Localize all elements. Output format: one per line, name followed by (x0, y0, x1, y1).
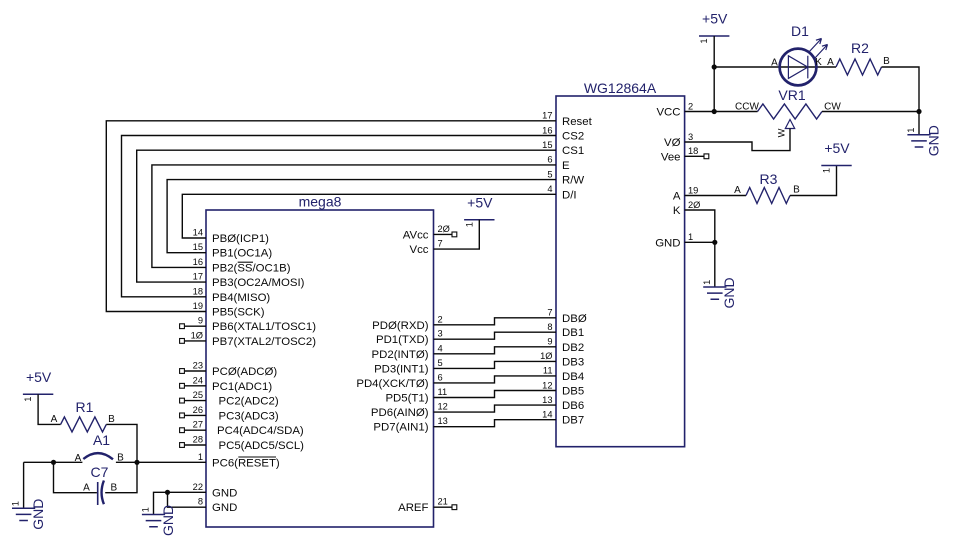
svg-text:PB4(MISO): PB4(MISO) (212, 292, 270, 304)
svg-text:PC2(ADC2): PC2(ADC2) (219, 396, 279, 408)
mega8 pin 18 PB4(MISO) (193, 286, 271, 304)
wire PD7-DB7 (434, 420, 557, 427)
svg-text:GND: GND (212, 502, 237, 514)
svg-text:1: 1 (11, 501, 21, 506)
wire PB5-Reset (106, 121, 556, 312)
resistor R1 (61, 417, 107, 432)
WG12864A pin 9 DB2 (547, 337, 584, 354)
mega8 pin 5 PD3(INT1) (374, 358, 443, 376)
svg-text:PD1(TXD): PD1(TXD) (376, 334, 429, 346)
svg-text:A: A (51, 414, 58, 425)
svg-text:15: 15 (542, 140, 552, 150)
ground G3 (141, 505, 176, 536)
svg-text:CS1: CS1 (562, 145, 584, 157)
wire R1 to node (106, 424, 137, 462)
ground G1 (906, 125, 941, 156)
svg-text:22: 22 (193, 482, 203, 492)
potentiometer VR1 (758, 104, 823, 129)
svg-text:PD5(T1): PD5(T1) (385, 393, 428, 405)
svg-text:2: 2 (438, 314, 443, 324)
svg-text:A: A (827, 57, 834, 68)
svg-text:PB1(OC1A): PB1(OC1A) (212, 248, 272, 260)
WG12864A pin 6 E (547, 155, 570, 172)
svg-text:E: E (562, 160, 570, 172)
wire VR1 to CW corner (822, 111, 919, 113)
wire Vcc to +5V (434, 220, 480, 249)
svg-text:13: 13 (438, 416, 448, 426)
svg-text:DB7: DB7 (562, 415, 584, 427)
svg-text:DB4: DB4 (562, 371, 584, 383)
power +5V VDD1 (699, 11, 729, 44)
svg-text:3: 3 (438, 329, 443, 339)
svg-text:PB6(XTAL1/TOSC1): PB6(XTAL1/TOSC1) (212, 321, 316, 333)
WG12864A pin 1 GND (655, 232, 693, 249)
wire PD6-DB6 (434, 405, 557, 412)
wire A pin to R3 (685, 195, 746, 197)
mega8 pin 12 PD6(AIN0) (371, 402, 448, 420)
svg-text:PB3(OC2A/MOSI): PB3(OC2A/MOSI) (212, 277, 305, 289)
mega8 pin 14 PB0(ICP1) (193, 228, 270, 246)
WG12864A pin 2 VCC (656, 101, 693, 118)
mega8 pin 19 PB5(SCK) (193, 301, 265, 319)
wire GND drop left (23, 462, 25, 508)
svg-text:+5V: +5V (702, 11, 728, 27)
svg-text:5: 5 (438, 358, 443, 368)
mega8 pin 2 PD0(RXD) (372, 314, 443, 332)
svg-text:PC3(ADC3): PC3(ADC3) (219, 410, 279, 422)
svg-text:15: 15 (193, 242, 203, 252)
svg-text:3: 3 (688, 132, 693, 142)
WG12864A pin 11 DB4 (543, 366, 584, 383)
svg-text:AREF: AREF (398, 502, 428, 514)
svg-text:K: K (673, 205, 681, 217)
svg-text:DB5: DB5 (562, 386, 584, 398)
svg-text:7: 7 (547, 308, 552, 318)
mega8 pin 1 PC6(RESET) (198, 452, 280, 470)
junction K-GND junction (712, 240, 717, 245)
svg-text:16: 16 (542, 125, 552, 135)
svg-text:AVcc: AVcc (403, 229, 429, 241)
mega8 pin 15 PB1(OC1A) (193, 242, 273, 260)
svg-text:24: 24 (193, 375, 203, 385)
mega8 pin 20 AVcc (403, 224, 457, 242)
WG12864A pin 18 Vee (661, 146, 698, 163)
svg-text:9: 9 (198, 316, 203, 326)
mega8 pin 25 PC2(ADC2) (180, 390, 279, 408)
svg-text:4: 4 (547, 184, 552, 194)
svg-text:PC4(ADC4/SDA): PC4(ADC4/SDA) (217, 425, 304, 437)
svg-text:2Ø: 2Ø (438, 224, 450, 234)
svg-text:Vcc: Vcc (410, 244, 429, 256)
mega8 pin 27 PC4(ADC4/SDA) (180, 420, 304, 438)
ground G4 (11, 499, 46, 530)
wire PB3-CS1 (137, 150, 556, 282)
LED D1 (780, 39, 828, 86)
mega8 pin 8 GND (198, 497, 237, 515)
svg-text:B: B (793, 185, 800, 196)
wire R2 to GND corner (882, 67, 920, 112)
WG12864A pin 5 R/W (547, 169, 584, 186)
mega8 pin 23 PC0(ADC0) (180, 361, 278, 379)
svg-text:GND: GND (655, 237, 680, 249)
wire PD2-DB2 (434, 347, 557, 354)
wire +5V rail drop (713, 36, 715, 112)
svg-text:VCC: VCC (656, 107, 680, 119)
svg-text:14: 14 (193, 228, 203, 238)
svg-text:C7: C7 (91, 464, 109, 480)
IC U1 mega8 box (206, 210, 434, 527)
svg-text:+5V: +5V (467, 194, 493, 210)
svg-text:R/W: R/W (562, 175, 584, 187)
svg-text:R3: R3 (760, 171, 778, 187)
wire GND drop right (918, 112, 920, 135)
svg-text:7: 7 (438, 239, 443, 249)
wire PB0-D/I (182, 194, 556, 238)
svg-text:5: 5 (547, 169, 552, 179)
svg-text:GND: GND (160, 505, 176, 536)
svg-text:D1: D1 (791, 23, 809, 39)
svg-text:PD4(XCK/TØ): PD4(XCK/TØ) (356, 378, 428, 390)
svg-text:DB6: DB6 (562, 400, 584, 412)
junction CW junction (916, 109, 921, 114)
wire node to switch (24, 461, 83, 463)
mega8 pin 16 PB2(SS/OC1B) (193, 257, 291, 275)
svg-text:PD2(INTØ): PD2(INTØ) (372, 349, 429, 361)
svg-text:B: B (108, 414, 115, 425)
svg-text:A: A (771, 58, 778, 69)
svg-text:GND: GND (721, 277, 737, 308)
WG12864A pin 12 DB5 (542, 380, 584, 397)
svg-text:VR1: VR1 (778, 87, 805, 103)
svg-text:28: 28 (193, 435, 203, 445)
svg-text:PC5(ADC5/SCL): PC5(ADC5/SCL) (219, 440, 305, 452)
wire GND8 wire (168, 492, 207, 507)
svg-text:2: 2 (688, 101, 693, 111)
mega8 pin 13 PD7(AIN1) (373, 416, 447, 434)
svg-text:17: 17 (542, 111, 552, 121)
junction GND junction (165, 490, 170, 495)
svg-text:1Ø: 1Ø (540, 351, 552, 361)
mega8 pin 4 PD2(INT0) (372, 343, 443, 361)
wire VCC to VR1 (685, 111, 758, 113)
IC U2 WG12864A box (556, 96, 685, 447)
svg-text:K: K (815, 57, 822, 68)
svg-text:27: 27 (193, 420, 203, 430)
mega8 pin 17 PB3(OC2A/MOSI) (193, 272, 305, 290)
wire PD1-DB1 (434, 332, 557, 339)
wire K to GND (685, 210, 715, 242)
mega8 pin 11 PD5(T1) (385, 387, 447, 405)
junction LED tap (712, 64, 717, 69)
svg-text:PB2(SS/OC1B): PB2(SS/OC1B) (212, 262, 291, 274)
svg-text:A1: A1 (93, 432, 110, 448)
mega8 pin 6 PD4(XCK/T0) (356, 372, 442, 390)
WG12864A pin 15 CS1 (542, 140, 584, 157)
svg-text:PCØ(ADCØ): PCØ(ADCØ) (212, 366, 277, 378)
resistor R2 (836, 59, 882, 75)
svg-text:Vee: Vee (661, 151, 681, 163)
svg-text:+5V: +5V (26, 369, 52, 385)
wire C7 right leg (105, 462, 137, 492)
power +5V VDD2 (464, 194, 494, 227)
svg-text:PDØ(RXD): PDØ(RXD) (372, 320, 429, 332)
WG12864A pin 19 A (673, 185, 698, 202)
mega8 pin 24 PC1(ADC1) (180, 375, 273, 393)
svg-text:11: 11 (438, 387, 448, 397)
svg-text:PD6(AINØ): PD6(AINØ) (371, 407, 429, 419)
power +5V VDD4 (23, 369, 53, 402)
svg-text:16: 16 (193, 257, 203, 267)
wire PD4-DB4 (434, 376, 557, 383)
svg-text:PB7(XTAL2/TOSC2): PB7(XTAL2/TOSC2) (212, 336, 316, 348)
wire switch to PC6 (116, 461, 206, 463)
mega8 pin 22 GND (193, 482, 238, 500)
svg-text:12: 12 (542, 380, 552, 390)
WG12864A pin 4 D/I (547, 184, 576, 201)
WG12864A pin 10 DB3 (540, 351, 584, 368)
WG12864A pin 3 V0 (664, 132, 693, 149)
svg-text:4: 4 (438, 343, 443, 353)
junction VCC tap (712, 109, 717, 114)
junction node right (134, 460, 139, 465)
wire PD3-DB3 (434, 361, 557, 368)
svg-text:W: W (777, 128, 787, 137)
svg-text:+5V: +5V (824, 140, 850, 156)
svg-text:R2: R2 (851, 40, 869, 56)
mega8 pin 26 PC3(ADC3) (180, 405, 279, 423)
svg-text:1: 1 (23, 397, 33, 402)
svg-text:DB2: DB2 (562, 342, 584, 354)
svg-text:17: 17 (193, 272, 203, 282)
svg-text:1: 1 (906, 128, 916, 133)
svg-text:D/I: D/I (562, 189, 577, 201)
svg-text:18: 18 (193, 286, 203, 296)
wire PB2-E (152, 165, 556, 268)
svg-text:14: 14 (542, 410, 552, 420)
svg-text:13: 13 (542, 395, 552, 405)
wire +5V to R1 (38, 394, 61, 424)
wire PD0-DB0 (434, 318, 557, 325)
svg-text:DB1: DB1 (562, 327, 584, 339)
svg-text:B: B (883, 56, 890, 67)
ground G2 (702, 277, 737, 308)
WG12864A pin 13 DB6 (542, 395, 584, 412)
svg-text:CS2: CS2 (562, 131, 584, 143)
svg-text:25: 25 (193, 390, 203, 400)
svg-text:18: 18 (688, 146, 698, 156)
svg-text:GND: GND (925, 125, 941, 156)
wire GND pin1 wire (685, 241, 715, 243)
svg-text:11: 11 (543, 366, 553, 376)
svg-text:A: A (734, 185, 741, 196)
mega8 pin 21 AREF (398, 497, 457, 515)
svg-text:21: 21 (438, 497, 448, 507)
svg-text:PBØ(ICP1): PBØ(ICP1) (212, 233, 269, 245)
svg-text:23: 23 (193, 361, 203, 371)
WG12864A pin 8 DB1 (547, 322, 584, 339)
svg-text:19: 19 (193, 301, 203, 311)
svg-text:PC6(RESET): PC6(RESET) (212, 458, 280, 470)
mega8 pin 3 PD1(TXD) (376, 329, 443, 347)
svg-text:9: 9 (547, 337, 552, 347)
mega8 pin 10 PB7(XTAL2/TOSC2) (180, 330, 317, 348)
switch A1 (83, 453, 113, 459)
svg-text:PD3(INT1): PD3(INT1) (374, 363, 429, 375)
wire GND drop LCD (714, 242, 716, 287)
svg-text:1: 1 (702, 280, 712, 285)
WG12864A pin 16 CS2 (542, 125, 584, 142)
svg-text:DB3: DB3 (562, 356, 584, 368)
wire PB1-R/W (167, 180, 556, 253)
wire LED anode (714, 66, 836, 68)
svg-text:6: 6 (547, 155, 552, 165)
svg-text:GND: GND (30, 499, 46, 530)
svg-text:R1: R1 (76, 399, 94, 415)
svg-text:PC1(ADC1): PC1(ADC1) (212, 381, 272, 393)
svg-text:1: 1 (198, 452, 203, 462)
capacitor C7 (98, 481, 104, 506)
resistor R3 (746, 188, 790, 204)
svg-text:26: 26 (193, 405, 203, 415)
junction node left (51, 460, 56, 465)
svg-text:1: 1 (822, 168, 832, 173)
svg-text:Reset: Reset (562, 116, 593, 128)
wire PD5-DB5 (434, 391, 557, 398)
svg-text:PB5(SCK): PB5(SCK) (212, 307, 265, 319)
wire GND22 wire (154, 492, 207, 514)
WG12864A pin 14 DB7 (542, 410, 584, 427)
overline SS of PB2 (238, 261, 253, 263)
WG12864A pin 7 DB0 (547, 308, 586, 325)
svg-text:GND: GND (212, 487, 237, 499)
power +5V VDD3 (821, 140, 851, 173)
svg-text:DBØ: DBØ (562, 313, 587, 325)
WG12864A pin 18 Vee stub (685, 154, 709, 159)
wire PB4-CS2 (122, 136, 557, 297)
svg-text:1: 1 (699, 38, 709, 43)
WG12864A pin 17 Reset (542, 111, 592, 128)
svg-text:1Ø: 1Ø (191, 330, 203, 340)
svg-text:1: 1 (141, 507, 151, 512)
wire R3 to +5V (790, 166, 837, 196)
svg-text:B: B (110, 483, 117, 494)
svg-text:A: A (83, 483, 90, 494)
mega8 pin 28 PC5(ADC5/SCL) (180, 435, 305, 453)
svg-text:8: 8 (547, 322, 552, 332)
svg-text:mega8: mega8 (299, 194, 342, 210)
svg-text:6: 6 (438, 372, 443, 382)
WG12864A pin 20 K (673, 200, 701, 217)
svg-text:8: 8 (198, 497, 203, 507)
svg-text:PD7(AIN1): PD7(AIN1) (373, 422, 428, 434)
mega8 pin 9 PB6(XTAL1/TOSC1) (180, 316, 317, 334)
svg-text:WG12864A: WG12864A (584, 80, 657, 96)
svg-text:19: 19 (688, 185, 698, 195)
svg-text:1: 1 (464, 222, 474, 227)
wire V0 to wiper (685, 129, 790, 151)
svg-text:VØ: VØ (664, 137, 681, 149)
svg-text:1: 1 (688, 232, 693, 242)
wire C7 left leg (54, 462, 97, 492)
svg-text:A: A (673, 191, 681, 203)
mega8 pin 7 Vcc (410, 239, 443, 257)
svg-text:12: 12 (438, 402, 448, 412)
svg-text:2Ø: 2Ø (688, 200, 700, 210)
